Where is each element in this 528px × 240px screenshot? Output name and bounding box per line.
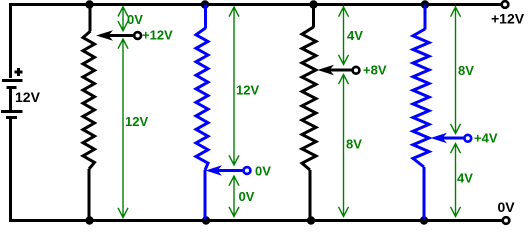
node: junction dot top of R3 [309, 0, 317, 8]
wire: top stub of R1 [89, 5, 92, 32]
svg-text:0V: 0V [239, 189, 255, 204]
node: junction dot bottom of R4 [420, 216, 428, 224]
battery B1 cell2 long plate [1, 110, 23, 113]
R4 wiper arrow (blue) [431, 133, 448, 144]
wire: top stub of R3 [312, 5, 315, 28]
wire: R2 wiper lead (blue) [216, 169, 243, 172]
dimension line col2 upper (12V span) [229, 7, 239, 165]
R1 wiper arrow [96, 30, 113, 41]
svg-text:+12V: +12V [491, 10, 525, 26]
R3 wiper arrow [318, 65, 335, 76]
svg-text:0V: 0V [127, 12, 143, 27]
wire: top stub of R2 (blue) [204, 5, 207, 29]
R2 wiper arrow (blue) [206, 165, 223, 176]
dimension line col3 lower (8V span) [339, 75, 349, 217]
wire: top stub of R4 (blue) [424, 5, 427, 30]
node: junction dot bottom of R2 [202, 216, 210, 224]
svg-text:+12V: +12V [142, 28, 173, 43]
R2 wiper terminal circle (blue) [244, 167, 251, 174]
svg-text:12V: 12V [15, 89, 41, 105]
svg-text:12V: 12V [236, 83, 259, 98]
terminal 0V (bottom right) [503, 217, 510, 224]
wire: bottom stub of R2 (blue) [204, 170, 207, 219]
R1 wiper terminal circle [134, 32, 141, 39]
wire: R3 wiper lead [328, 69, 352, 72]
dimension line col1 lower (12V span) [118, 39, 128, 218]
node: junction dot top of R1 [85, 0, 93, 8]
svg-text:8V: 8V [458, 63, 474, 78]
wire: R4 wiper lead (blue) [441, 137, 463, 140]
wire: top rail from battery + to +12V terminal [11, 5, 502, 79]
battery B1 plus sign [15, 68, 23, 76]
battery B1 cell1 long plate (+) [2, 79, 23, 82]
potentiometer R2 body (blue zigzag) [196, 28, 208, 170]
dimension line col4 upper (8V span) [451, 7, 461, 134]
svg-text:+4V: +4V [474, 130, 498, 145]
dimension line col4 lower (4V span) [451, 144, 461, 217]
dimension line col3 upper (4V span) [339, 7, 349, 65]
node: junction dot bottom of R3 [307, 216, 315, 224]
dimension line col1 upper (0V span) [118, 7, 128, 31]
R4 wiper terminal circle (blue) [464, 135, 471, 142]
svg-text:12V: 12V [125, 114, 148, 129]
svg-text:4V: 4V [457, 171, 473, 186]
battery B1 cell1 short plate (-) [7, 86, 17, 89]
wire: R1 wiper lead [106, 34, 134, 37]
potentiometer R1 body (black zigzag) [83, 31, 95, 169]
potentiometer R3 body (black zigzag) [302, 27, 316, 170]
R3 wiper terminal circle [353, 67, 360, 74]
svg-text:0V: 0V [498, 199, 516, 215]
dimension line col2 lower (0V span) [229, 176, 239, 217]
wire: between battery cells [9, 87, 12, 110]
node: junction dot top of R2 [201, 0, 209, 8]
svg-text:4V: 4V [347, 28, 363, 43]
battery B1 cell2 short plate [6, 116, 17, 119]
wire: bottom stub of R4 (blue) [423, 167, 426, 219]
node: junction dot top of R4 [421, 0, 429, 8]
node: junction dot bottom of R1 [85, 216, 93, 224]
wire: bottom stub of R1 [88, 169, 91, 220]
svg-text:8V: 8V [346, 137, 362, 152]
wire: bottom stub of R3 [309, 170, 312, 220]
svg-text:+8V: +8V [363, 63, 387, 78]
terminal +12V (top right) [502, 1, 509, 8]
svg-text:0V: 0V [255, 163, 271, 178]
wire: bottom rail from battery - to 0V terminal [11, 118, 503, 221]
potentiometer R4 body (blue zigzag) [413, 29, 429, 167]
